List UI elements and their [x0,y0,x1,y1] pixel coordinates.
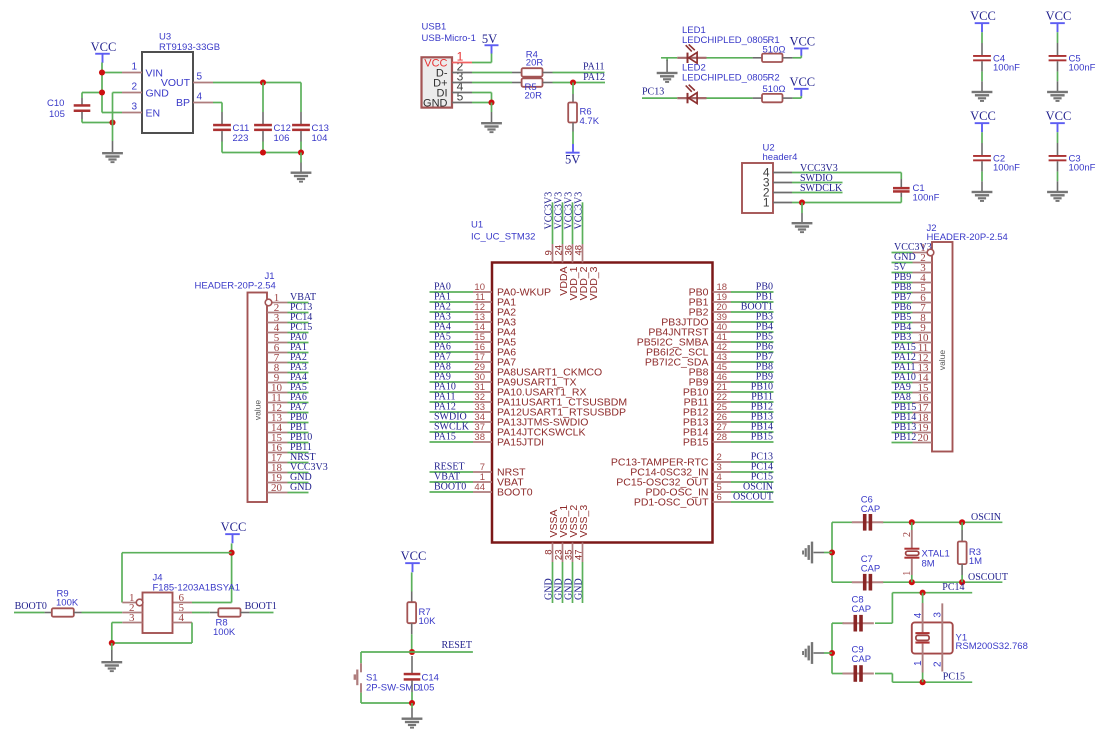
svg-text:106: 106 [274,133,290,144]
svg-text:VCC: VCC [1046,109,1072,123]
svg-text:1: 1 [131,62,137,73]
svg-text:20: 20 [271,482,283,494]
svg-text:20: 20 [918,432,930,444]
svg-text:R2: R2 [768,73,780,84]
svg-text:BP: BP [176,97,190,109]
svg-text:VSS_3: VSS_3 [578,505,590,538]
svg-text:GND: GND [423,98,448,110]
svg-text:BOOT0: BOOT0 [434,482,466,493]
svg-text:C10: C10 [47,98,64,109]
svg-text:1: 1 [913,660,924,666]
svg-text:5V: 5V [565,153,580,167]
svg-text:PB15: PB15 [751,432,773,443]
svg-text:PB12: PB12 [894,432,916,443]
svg-text:USB1: USB1 [422,22,447,33]
svg-text:PC15: PC15 [943,672,965,683]
svg-text:VCC: VCC [91,40,117,54]
svg-text:1: 1 [763,195,770,209]
svg-text:100K: 100K [213,627,236,638]
svg-text:header4: header4 [763,152,798,163]
svg-text:PC14: PC14 [942,582,964,593]
svg-text:F185-1203A1BSYA1: F185-1203A1BSYA1 [153,583,241,594]
svg-text:BOOT0: BOOT0 [497,487,533,499]
svg-text:PD1-OSC_OUT: PD1-OSC_OUT [634,497,709,509]
svg-text:38: 38 [474,432,485,443]
svg-text:223: 223 [233,133,249,144]
svg-text:EN: EN [146,107,161,119]
svg-text:GND: GND [146,87,170,99]
svg-text:LEDCHIPLED_0805: LEDCHIPLED_0805 [682,73,768,84]
svg-text:105: 105 [419,682,435,693]
svg-text:VCC: VCC [970,109,996,123]
svg-text:GND: GND [573,578,584,600]
svg-text:IC_UC_STM32: IC_UC_STM32 [471,232,535,243]
svg-text:510Ω: 510Ω [763,84,786,95]
svg-text:SWDCLK: SWDCLK [800,183,843,194]
svg-text:5: 5 [197,72,203,83]
svg-text:PA12: PA12 [583,72,605,83]
svg-text:48: 48 [574,245,585,256]
svg-text:CAP: CAP [861,563,881,574]
svg-text:100nF: 100nF [993,63,1020,74]
svg-text:GND: GND [290,482,312,493]
svg-text:CAP: CAP [861,504,881,515]
svg-text:RESET: RESET [441,640,472,651]
svg-text:47: 47 [574,550,585,561]
svg-text:10K: 10K [419,616,437,627]
svg-text:BOOT1: BOOT1 [245,601,277,612]
svg-text:1: 1 [902,571,913,576]
svg-text:100K: 100K [56,598,79,609]
svg-text:CAP: CAP [852,654,872,665]
svg-text:104: 104 [312,133,328,144]
svg-text:105: 105 [49,109,65,120]
svg-text:20R: 20R [526,58,544,69]
svg-text:VCC: VCC [1046,9,1072,23]
svg-text:VCC3V3: VCC3V3 [573,192,584,230]
svg-text:VCC: VCC [970,9,996,23]
svg-text:2: 2 [902,532,913,537]
svg-text:5: 5 [457,90,464,104]
svg-text:20R: 20R [525,91,543,102]
svg-text:VCC: VCC [789,75,815,89]
svg-text:OSCIN: OSCIN [971,512,1001,523]
svg-text:VCC: VCC [401,549,427,563]
svg-text:CAP: CAP [852,604,872,615]
svg-text:PA15: PA15 [434,432,456,443]
svg-text:HEADER-20P-2.54: HEADER-20P-2.54 [195,281,276,292]
svg-text:3: 3 [933,612,944,618]
svg-text:510Ω: 510Ω [763,45,786,56]
svg-text:8M: 8M [922,559,935,570]
svg-text:U3: U3 [159,32,171,43]
svg-text:6: 6 [717,492,722,503]
svg-text:PA11: PA11 [583,61,605,72]
svg-text:PB15: PB15 [683,437,709,449]
svg-text:PA15JTDI: PA15JTDI [497,437,544,449]
svg-text:3: 3 [131,102,137,113]
svg-text:value: value [937,350,947,371]
svg-text:100nF: 100nF [993,163,1020,174]
svg-text:U1: U1 [471,220,483,231]
svg-text:100nF: 100nF [1069,63,1096,74]
svg-text:RSM200S32.768: RSM200S32.768 [956,641,1028,652]
svg-text:5V: 5V [482,32,497,46]
svg-text:1M: 1M [969,556,982,567]
svg-text:4: 4 [913,612,924,618]
svg-text:OSCOUT: OSCOUT [733,492,773,503]
svg-text:USB-Micro-1: USB-Micro-1 [422,33,476,44]
svg-text:100nF: 100nF [1069,163,1096,174]
svg-text:VCC: VCC [221,520,247,534]
svg-text:VCC: VCC [789,35,815,49]
svg-text:VOUT: VOUT [161,77,191,89]
svg-text:value: value [253,400,263,421]
svg-text:2: 2 [131,82,137,93]
svg-text:BOOT0: BOOT0 [15,601,47,612]
svg-text:100nF: 100nF [913,192,940,203]
svg-text:44: 44 [474,482,485,493]
svg-text:OSCOUT: OSCOUT [968,572,1008,583]
svg-text:VDD_3: VDD_3 [588,266,600,300]
svg-text:28: 28 [717,432,728,443]
svg-text:4: 4 [197,92,203,103]
svg-text:PC13: PC13 [642,86,664,97]
svg-text:LEDCHIPLED_0805: LEDCHIPLED_0805 [682,35,768,46]
svg-text:4.7K: 4.7K [580,116,600,127]
svg-text:2: 2 [933,661,944,667]
